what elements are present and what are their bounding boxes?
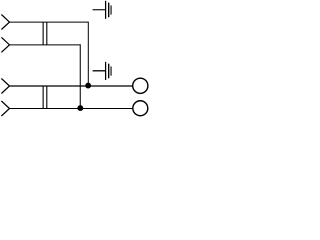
junction node A (dot on net 3) — [85, 83, 91, 89]
wire: net 2 horizontal from J2 — [10, 44, 81, 46]
input port arrow J3 — [1, 79, 9, 94]
wire: net 3 from J3 to output jack P1 — [10, 85, 133, 87]
ground GND2 bars — [106, 62, 111, 80]
ground GND2 lead — [93, 70, 106, 72]
wire: net 1 horizontal from J1 — [10, 21, 89, 23]
ground GND1 lead — [93, 9, 106, 11]
output jack P1 (circle) — [133, 78, 148, 93]
twin-lead element W2 (double vertical bars across bottom pair) — [43, 86, 47, 109]
input port arrow J1 (top) — [1, 15, 9, 30]
wire: net 2 vertical down to junction B — [79, 44, 81, 108]
input port arrow J2 — [1, 37, 9, 52]
twin-lead element W1 (double vertical bars across top pair) — [43, 22, 47, 45]
input port arrow J4 (bottom) — [1, 101, 9, 116]
junction node B (dot on net 4) — [77, 105, 83, 111]
output jack P2 (circle) — [133, 101, 148, 116]
ground GND1 bars — [106, 1, 111, 19]
wire: net 1 vertical down to junction A — [87, 22, 89, 86]
wire: net 4 from J4 to output jack P2 — [10, 108, 133, 110]
